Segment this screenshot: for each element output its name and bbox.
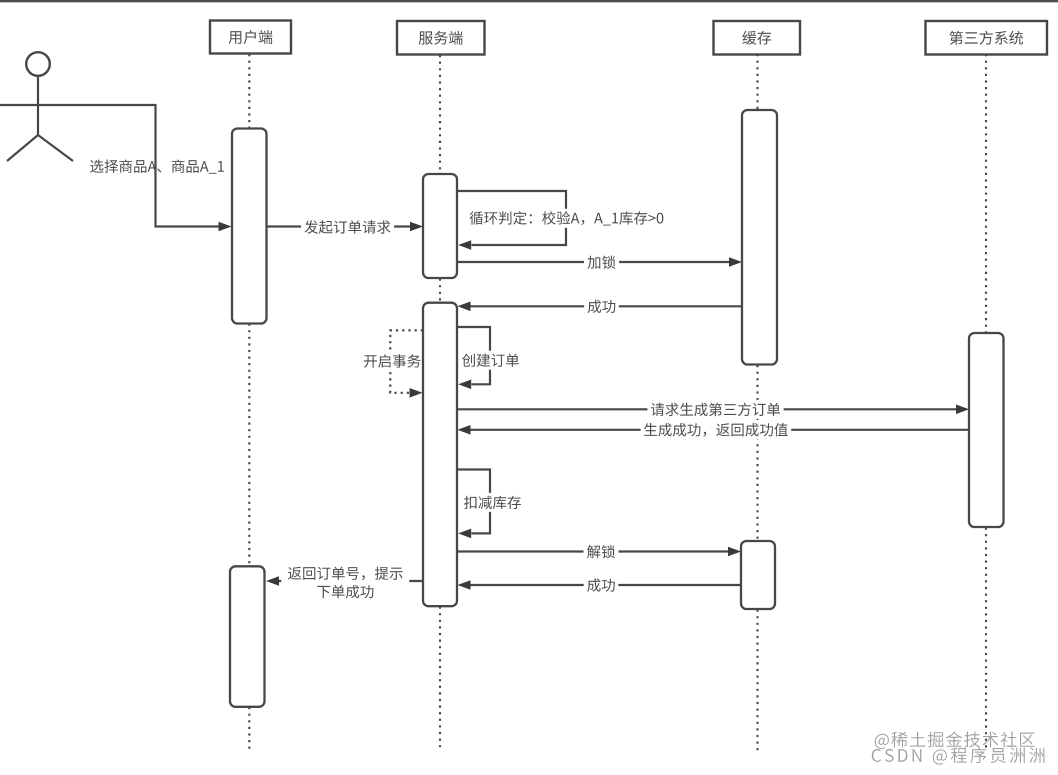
header box 第三方系统 (926, 21, 1048, 55)
arrowhead self-loop 循环判定 (458, 240, 471, 250)
arrowhead 开启事务 (410, 388, 423, 398)
arrowhead into 服务端 bar2 (成功 lower) (458, 580, 471, 590)
message wire 解锁 (457, 550, 729, 552)
arrowhead into 缓存 bar1 (729, 257, 742, 267)
message wire 成功 (upper) (470, 305, 742, 307)
self-loop wire 循环判定 (服务端 bar1) (457, 191, 566, 245)
actor arms (0, 104, 78, 106)
actor legs (7, 135, 73, 161)
lifeline 服务端 (dotted) (439, 55, 441, 751)
header box 缓存 (714, 21, 801, 55)
label 返回订单号，提示 (line1) (281, 565, 409, 601)
arrowhead into 服务端 bar2 (成功 upper) (458, 302, 471, 312)
label 创建订单 (461, 351, 522, 370)
activation bar 用户端 #1 (232, 129, 267, 324)
label 扣减库存 (463, 493, 524, 512)
label 下单成功 (line2) (317, 585, 373, 598)
label 选择商品A、商品A_1 (90, 160, 224, 174)
arrowhead into 用户端 bar2 (266, 576, 279, 586)
lifeline 第三方系统 (dotted) (985, 54, 987, 751)
activation bar 服务端 #2 (423, 303, 457, 607)
activation bar 第三方系统 (969, 333, 1004, 527)
self-loop wire 扣减库存 (457, 470, 490, 534)
message wire 成功 (lower) (470, 584, 741, 586)
label 加锁 (584, 253, 619, 272)
self-loop wire 创建订单 (457, 327, 490, 384)
arrowhead into 服务端 bar1 (410, 222, 423, 232)
header box 用户端 (210, 21, 291, 54)
message wire 请求生成第三方订单 (457, 408, 958, 410)
message wire 选择商品A、商品A_1 (actor to 用户端) (78, 105, 220, 227)
message wire 发起订单请求 (267, 225, 412, 227)
self-loop dotted wire 开启事务 (服务端 bar2 left) (390, 330, 423, 392)
arrowhead into 第三方系统 bar (956, 405, 969, 415)
message wire 加锁 (457, 261, 730, 263)
message wire 返回订单号，提示下单成功 (278, 580, 424, 582)
label 解锁 (584, 542, 619, 561)
activation bar 服务端 #1 (423, 174, 457, 278)
label 发起订单请求 (301, 218, 394, 237)
watermark CSDN @程序员洲洲 (872, 747, 1045, 764)
label 成功 (upper) (584, 297, 619, 316)
label 生成成功，返回成功值 (641, 420, 792, 439)
arrowhead into 服务端 bar2 (生成成功) (458, 425, 471, 435)
label 成功 (lower) (584, 576, 619, 595)
activation bar 缓存 #1 (742, 110, 777, 365)
activation bar 缓存 #2 (741, 541, 775, 609)
lifeline 缓存 (dotted) (756, 54, 758, 751)
label 请求生成第三方订单 (647, 400, 783, 419)
arrowhead self-loop 创建订单 (458, 380, 471, 390)
activation bar 用户端 #2 (230, 566, 265, 707)
watermark @稀土掘金技术社区 (875, 732, 1035, 749)
arrowhead self-loop 扣减库存 (458, 529, 471, 539)
message wire 生成成功，返回成功值 (470, 429, 969, 431)
arrowhead into 缓存 bar2 (728, 547, 741, 557)
label 开启事务 (361, 352, 421, 371)
label 循环判定：校验A，A_1库存>0 (466, 209, 667, 228)
actor head (26, 52, 50, 76)
arrowhead into 用户端 bar1 (219, 222, 232, 232)
top border line (0, 0, 1058, 2)
lifeline 用户端 (dotted) (248, 54, 250, 750)
actor body (37, 76, 39, 135)
header box 服务端 (397, 21, 485, 55)
